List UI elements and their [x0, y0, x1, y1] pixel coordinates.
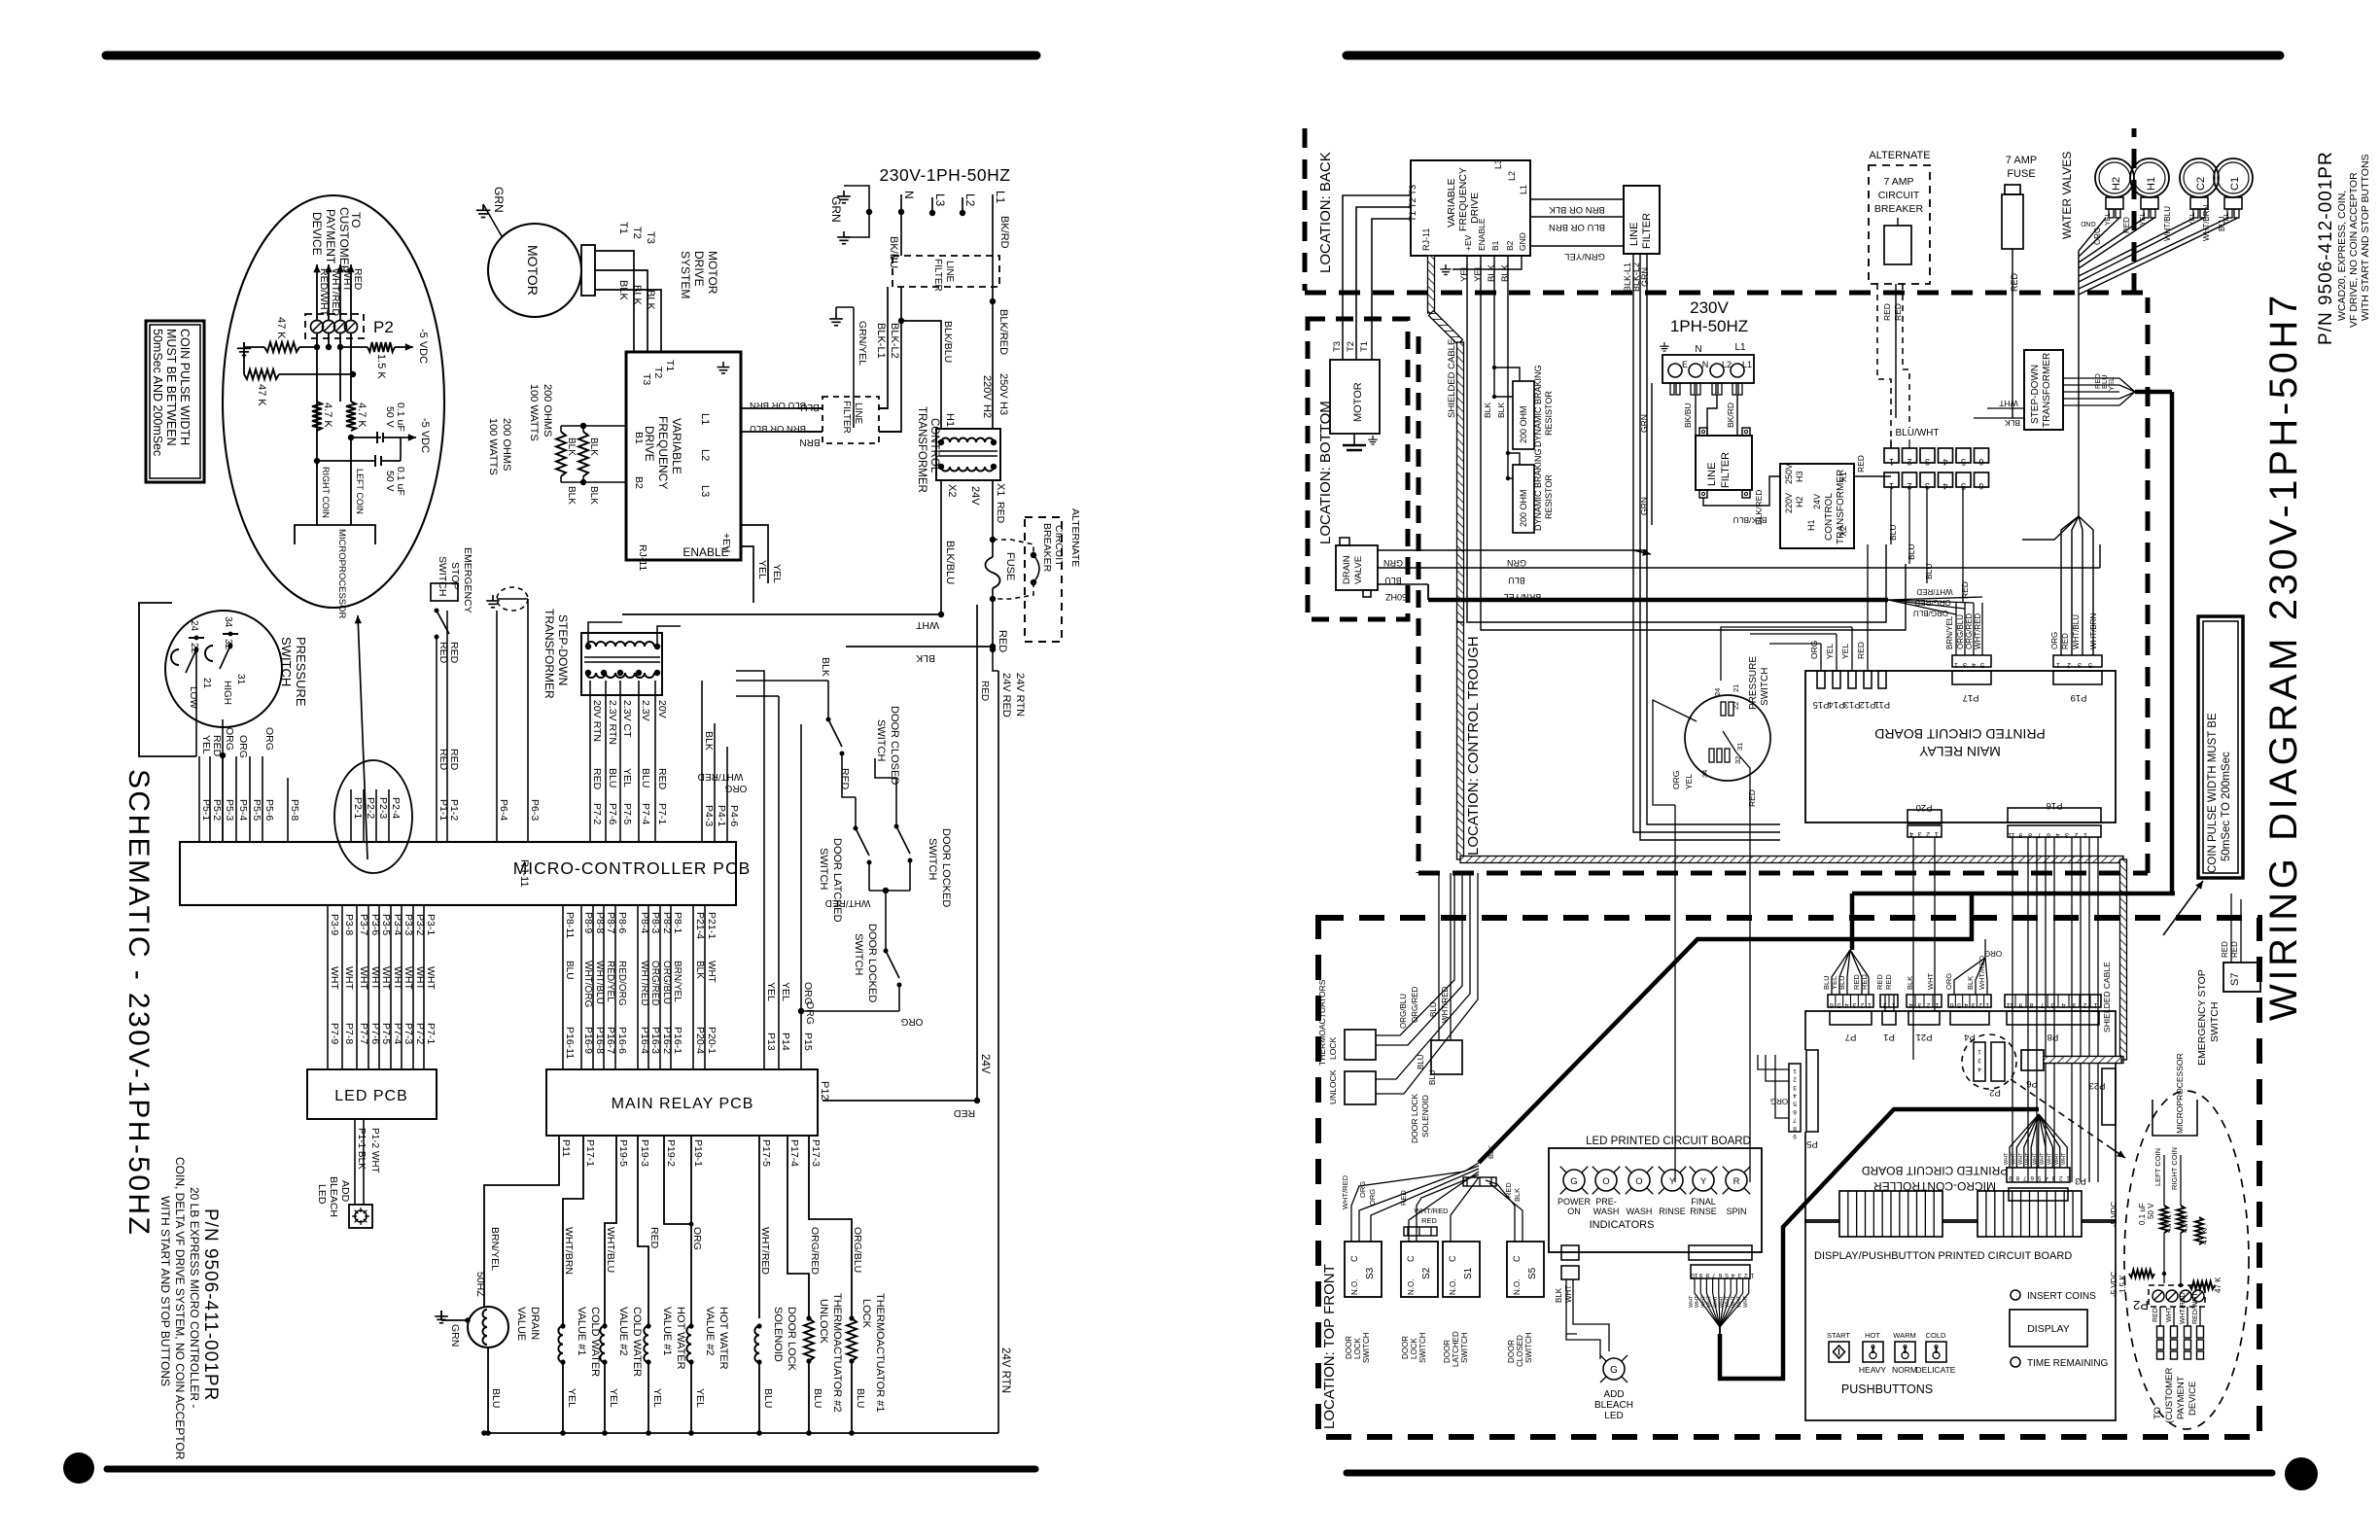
svg-text:FILTER: FILTER — [1720, 452, 1732, 488]
wires below P16 — [2012, 837, 2098, 1182]
svg-text:P5-5: P5-5 — [251, 799, 262, 821]
svg-text:P17: P17 — [1963, 692, 1979, 703]
svg-text:P7-9: P7-9 — [329, 1023, 340, 1044]
svg-text:WHT: WHT — [1719, 1295, 1725, 1308]
P2 connector (right ellipse) — [2133, 1285, 2205, 1312]
svg-text:RED: RED — [211, 735, 223, 757]
svg-text:WHT: WHT — [1700, 1295, 1706, 1308]
wires BLK WHT to add bleach LED — [1555, 1279, 1609, 1359]
svg-text:PAYMENT: PAYMENT — [324, 209, 337, 264]
svg-text:WHT/RED: WHT/RED — [639, 961, 649, 1006]
svg-text:RIGHT COIN: RIGHT COIN — [2170, 1147, 2179, 1190]
svg-text:HOT: HOT — [1865, 1331, 1880, 1340]
svg-text:BRN/YEL: BRN/YEL — [489, 1227, 501, 1271]
svg-text:P8-6: P8-6 — [616, 912, 628, 933]
svg-text:B1: B1 — [1490, 240, 1500, 251]
svg-text:L1: L1 — [1734, 342, 1746, 353]
wire L3 stub — [929, 193, 947, 216]
svg-text:RED/YEL: RED/YEL — [605, 961, 615, 1002]
svg-text:WHT: WHT — [1926, 973, 1935, 990]
svg-text:P16-1: P16-1 — [672, 1027, 683, 1054]
svg-text:WHT: WHT — [1725, 1295, 1731, 1308]
svg-text:2: 2 — [2067, 661, 2071, 670]
svg-text:BK/RD: BK/RD — [998, 216, 1010, 249]
shielded cable VFD drop — [1428, 256, 1464, 622]
svg-text:BLK: BLK — [703, 731, 715, 751]
svg-text:WATER VALVES: WATER VALVES — [2060, 152, 2074, 239]
line filter mid-left dashed — [797, 397, 901, 447]
svg-text:BLK: BLK — [1483, 402, 1492, 418]
svg-text:WHT/BLU: WHT/BLU — [2163, 206, 2172, 241]
svg-text:P7-2: P7-2 — [414, 1023, 426, 1044]
-5 VDC arrow upper — [395, 329, 429, 364]
svg-text:YEL: YEL — [756, 560, 768, 579]
svg-text:WHT: WHT — [329, 966, 340, 990]
svg-text:9: 9 — [1698, 1272, 1702, 1278]
connector P16 — [2008, 800, 2101, 838]
svg-text:WHT: WHT — [425, 966, 437, 990]
svg-text:YEL: YEL — [200, 735, 212, 754]
svg-text:SOLENOID: SOLENOID — [1420, 1095, 1430, 1137]
door latched switch — [818, 797, 872, 923]
svg-text:S1: S1 — [1463, 1267, 1474, 1279]
svg-text:WHT: WHT — [2018, 1152, 2024, 1165]
svg-text:LEFT COIN: LEFT COIN — [355, 469, 365, 514]
svg-text:8: 8 — [2028, 831, 2032, 838]
svg-text:P11: P11 — [560, 1139, 572, 1157]
svg-text:ORG/RED: ORG/RED — [809, 1227, 821, 1275]
svg-text:BLU: BLU — [1924, 563, 1934, 579]
svg-text:LINE: LINE — [1706, 463, 1718, 486]
svg-text:RED: RED — [448, 642, 460, 664]
svg-text:P8-9: P8-9 — [582, 912, 594, 933]
svg-text:3: 3 — [1972, 1001, 1976, 1008]
svg-text:LINE: LINE — [944, 261, 955, 283]
svg-text:ORG: ORG — [1770, 1097, 1788, 1105]
svg-text:ORG: ORG — [804, 1001, 816, 1025]
svg-text:100 WATTS: 100 WATTS — [487, 418, 499, 475]
svg-text:LOCK: LOCK — [1328, 1037, 1338, 1060]
svg-text:WHT: WHT — [343, 966, 355, 990]
svg-text:P16-8: P16-8 — [594, 1027, 606, 1054]
svg-text:LED PRINTED CIRCUIT BOARD: LED PRINTED CIRCUIT BOARD — [1586, 1136, 1751, 1147]
svg-text:FINAL: FINAL — [1691, 1197, 1716, 1207]
note 20 LB EXPRESS MICRO CONTROLLER — [188, 1187, 201, 1408]
svg-text:ADD: ADD — [339, 1180, 351, 1203]
wires below line filter — [1623, 254, 1780, 840]
svg-text:P1-1: P1-1 — [437, 799, 449, 821]
thick 50HZ wire — [1378, 584, 1888, 600]
wires P1 RED — [437, 642, 460, 842]
svg-text:P17-5: P17-5 — [760, 1139, 772, 1167]
wire L1 to transformer — [944, 256, 1009, 429]
svg-text:X2: X2 — [946, 484, 958, 497]
svg-text:LOCK: LOCK — [1410, 1338, 1418, 1359]
svg-text:6: 6 — [1830, 1001, 1834, 1008]
svg-text:GRN: GRN — [1640, 267, 1650, 287]
svg-text:WHT: WHT — [1743, 1295, 1749, 1308]
wire P2-2 down — [328, 333, 330, 347]
svg-text:P2-1: P2-1 — [352, 797, 364, 819]
svg-text:1: 1 — [1750, 1272, 1754, 1278]
svg-text:COLD: COLD — [1926, 1331, 1946, 1340]
svg-text:S5: S5 — [1527, 1267, 1538, 1279]
display box — [2010, 1310, 2087, 1347]
pushbutton WARM NORM — [1892, 1331, 1917, 1375]
svg-text:L1: L1 — [994, 191, 1007, 204]
svg-text:RED/ORG: RED/ORG — [616, 961, 627, 1006]
svg-text:5: 5 — [1961, 457, 1966, 467]
svg-text:P2-4: P2-4 — [390, 797, 402, 819]
svg-text:P20-1: P20-1 — [706, 1027, 717, 1054]
svg-text:WHT/BLU: WHT/BLU — [2072, 614, 2081, 649]
svg-text:YEL: YEL — [2107, 377, 2116, 391]
svg-text:P13: P13 — [765, 1032, 777, 1051]
svg-text:HOT WATER: HOT WATER — [675, 1307, 686, 1370]
svg-text:WHT: WHT — [1713, 1295, 1719, 1308]
svg-text:PRESSURE: PRESSURE — [1748, 656, 1759, 710]
svg-text:BLK: BLK — [1906, 976, 1914, 990]
svg-text:6: 6 — [1718, 1272, 1722, 1278]
label INDICATORS — [1590, 1219, 1655, 1231]
svg-text:3: 3 — [1917, 1001, 1921, 1008]
svg-text:RIGHT COIN: RIGHT COIN — [321, 467, 331, 518]
svg-text:DOOR LOCKED: DOOR LOCKED — [866, 924, 878, 1002]
svg-text:L1: L1 — [699, 413, 711, 425]
svg-text:THERMOACTUATOR #1: THERMOACTUATOR #1 — [874, 1293, 886, 1412]
svg-text:ORG/BLU: ORG/BLU — [1913, 609, 1948, 617]
svg-text:SWITCH: SWITCH — [1524, 1332, 1533, 1363]
svg-text:GRN: GRN — [492, 187, 506, 213]
svg-text:CLOSED: CLOSED — [1516, 1335, 1524, 1367]
svg-text:L3: L3 — [699, 485, 711, 497]
svg-text:WASH: WASH — [1627, 1207, 1653, 1216]
svg-text:LATCHED: LATCHED — [1452, 1331, 1460, 1367]
svg-text:4: 4 — [1964, 1001, 1968, 1008]
svg-text:SWITCH: SWITCH — [437, 556, 448, 596]
connector P8 (display board) — [2005, 995, 2101, 1042]
svg-text:P3: P3 — [2075, 1175, 2086, 1186]
door lock solenoid — [1410, 873, 1462, 1143]
svg-text:P7-4: P7-4 — [640, 803, 651, 824]
binder dot bottom-right — [2285, 1457, 2318, 1490]
svg-text:YEL: YEL — [1840, 644, 1850, 659]
svg-text:VARIABLE: VARIABLE — [1446, 178, 1457, 227]
svg-text:47 K: 47 K — [275, 317, 287, 339]
svg-text:P7-5: P7-5 — [380, 1023, 392, 1044]
svg-text:BLK/BLU: BLK/BLU — [942, 321, 954, 363]
svg-text:MICROPROCESSOR: MICROPROCESSOR — [2175, 1053, 2185, 1134]
svg-text:BRN/YEL: BRN/YEL — [1945, 615, 1954, 649]
svg-text:220V: 220V — [1784, 493, 1794, 513]
svg-text:INSERT COINS: INSERT COINS — [2027, 1291, 2096, 1302]
svg-text:WHT/ORG: WHT/ORG — [582, 961, 593, 1008]
fan above P7 — [1822, 950, 1869, 995]
svg-text:WHT: WHT — [2166, 1306, 2173, 1322]
water valve wires — [2079, 204, 2238, 516]
svg-text:VARIABLE: VARIABLE — [670, 418, 683, 474]
VFD box (right) — [1408, 159, 1530, 256]
svg-text:H2: H2 — [2111, 177, 2122, 191]
GRN/YEL ground stub — [829, 307, 868, 428]
svg-text:3: 3 — [2051, 1174, 2055, 1181]
svg-text:100 WATTS: 100 WATTS — [528, 384, 540, 441]
svg-text:24V RTN: 24V RTN — [999, 1347, 1011, 1393]
svg-text:H2: H2 — [1795, 496, 1804, 507]
label WATER VALVES — [2060, 152, 2074, 239]
svg-text:P3-6: P3-6 — [369, 914, 381, 935]
pushbutton COLD DELICATE — [1916, 1331, 1956, 1375]
connector P2 (schematic) — [305, 314, 394, 338]
svg-text:RED: RED — [2152, 1308, 2159, 1322]
svg-text:P7-6: P7-6 — [369, 1023, 381, 1044]
svg-text:O: O — [1635, 1176, 1642, 1187]
wire BLK/BLU to H1 — [901, 321, 954, 429]
svg-text:BLU: BLU — [1417, 1054, 1425, 1069]
svg-text:BLU: BLU — [1508, 576, 1525, 585]
svg-text:RED: RED — [1884, 974, 1893, 990]
svg-text:P3-5: P3-5 — [380, 914, 392, 935]
micro-controller PCB outline (right) — [1805, 1011, 2116, 1222]
svg-text:FILTER: FILTER — [932, 259, 943, 292]
drain valve wires — [1378, 544, 2100, 602]
svg-text:COIN PULSE WIDTH: COIN PULSE WIDTH — [178, 329, 192, 445]
svg-text:BLU: BLU — [564, 961, 575, 979]
svg-text:4: 4 — [1793, 1092, 1797, 1099]
connector P20 — [1907, 802, 1942, 1060]
svg-text:T2: T2 — [652, 367, 664, 378]
svg-text:31: 31 — [235, 674, 246, 685]
wire 24V — [822, 605, 991, 1119]
page bottom rule (right sheet) — [1347, 1470, 2272, 1477]
svg-text:P12: P12 — [1860, 699, 1876, 710]
svg-text:SWITCH: SWITCH — [1418, 1332, 1427, 1363]
svg-text:ORG/BLU: ORG/BLU — [1956, 614, 1965, 649]
svg-text:SWITCH: SWITCH — [818, 848, 829, 890]
svg-text:ORG: ORG — [1358, 1181, 1367, 1198]
svg-text:LINE: LINE — [1628, 223, 1640, 246]
svg-text:250V: 250V — [1784, 464, 1794, 484]
svg-text:BLEACH: BLEACH — [328, 1176, 339, 1217]
svg-text:WITH START AND STOP BUTTONS: WITH START AND STOP BUTTONS — [2360, 154, 2371, 321]
alternate circuit breaker (left) — [993, 508, 1081, 642]
svg-text:HIGH: HIGH — [222, 681, 232, 705]
svg-text:BK/BU: BK/BU — [1683, 402, 1693, 428]
svg-text:RED: RED — [1504, 1182, 1513, 1198]
svg-text:WHT: WHT — [392, 966, 403, 990]
label LOCATION: TOP FRONT — [1321, 1264, 1338, 1429]
svg-text:6: 6 — [2047, 831, 2050, 838]
wire L2 stub — [960, 193, 977, 216]
emergency stop switch — [431, 583, 458, 681]
grounds at line entry — [829, 186, 872, 244]
svg-text:P12: P12 — [819, 1081, 830, 1101]
svg-text:WHT: WHT — [2040, 1152, 2046, 1165]
svg-text:P7-7: P7-7 — [358, 1023, 369, 1044]
svg-text:-5 VDC: -5 VDC — [417, 329, 429, 364]
svg-text:X1: X1 — [1838, 472, 1848, 482]
wires P13 P14 P15 — [764, 681, 814, 1069]
svg-text:2: 2 — [1860, 1001, 1864, 1008]
svg-text:WHT: WHT — [1689, 1295, 1695, 1308]
svg-text:RED: RED — [953, 1107, 975, 1119]
connector P7 (display board) — [1828, 995, 1873, 1042]
LED PCB box — [307, 1069, 437, 1119]
svg-text:50mSec AND 200mSec: 50mSec AND 200mSec — [151, 329, 164, 456]
wire P2-4 down — [350, 333, 352, 402]
svg-text:FUSE: FUSE — [2007, 168, 2035, 180]
svg-text:WHT: WHT — [2025, 1152, 2031, 1165]
svg-text:SWITCH: SWITCH — [279, 637, 294, 686]
svg-text:WHT/RED: WHT/RED — [698, 771, 744, 782]
dashed border BACK — [1305, 128, 2148, 293]
svg-text:1: 1 — [1954, 661, 1958, 670]
svg-text:T2: T2 — [631, 227, 643, 239]
svg-text:T3: T3 — [641, 373, 652, 385]
svg-text:L1: L1 — [1519, 185, 1528, 194]
svg-text:COIN PULSE WIDTH MUST BE: COIN PULSE WIDTH MUST BE — [2207, 713, 2219, 873]
svg-text:RED: RED — [2122, 217, 2131, 233]
svg-text:WHT/RED: WHT/RED — [1977, 955, 1986, 990]
red wire X1 — [1854, 455, 1891, 476]
svg-text:WHT: WHT — [1707, 1295, 1713, 1308]
svg-text:1: 1 — [1889, 457, 1894, 467]
svg-text:P2-3: P2-3 — [377, 797, 389, 819]
svg-text:TRANSFORMER: TRANSFORMER — [916, 406, 927, 493]
svg-text:L3: L3 — [933, 193, 947, 207]
wires VFD to line filter — [1530, 199, 1624, 262]
svg-text:MOTOR: MOTOR — [1352, 382, 1364, 422]
svg-text:UNLOCK: UNLOCK — [818, 1299, 829, 1345]
svg-text:WARM: WARM — [1893, 1331, 1915, 1340]
svg-text:DOOR: DOOR — [1345, 1336, 1353, 1359]
dashed border TOP FRONT — [1318, 918, 2259, 1437]
svg-text:2: 2 — [1744, 1272, 1748, 1278]
door closed switch — [736, 657, 900, 785]
svg-text:BRN OR BLK: BRN OR BLK — [1549, 204, 1605, 215]
label MOTOR DRIVE SYSTEM — [679, 251, 719, 298]
svg-text:GRN: GRN — [1383, 558, 1403, 568]
svg-text:SHIELDED CABLE: SHIELDED CABLE — [1447, 339, 1457, 418]
oval P2 wires — [334, 760, 412, 873]
svg-text:L1: L1 — [1742, 360, 1752, 369]
svg-text:3: 3 — [1737, 1272, 1741, 1278]
svg-text:VALUE #1: VALUE #1 — [661, 1307, 673, 1356]
svg-text:NORM: NORM — [1892, 1365, 1917, 1375]
svg-text:BLK: BLK — [820, 657, 831, 677]
svg-text:MICROPROCESSOR: MICROPROCESSOR — [336, 529, 347, 619]
wires motor T1 T2 T3 — [595, 222, 661, 352]
svg-text:PRINTED CIRCUIT BOARD: PRINTED CIRCUIT BOARD — [1874, 726, 2046, 742]
svg-text:3: 3 — [1977, 1057, 1981, 1064]
svg-text:WHT/BRN: WHT/BRN — [2089, 612, 2098, 649]
svg-text:PAYMENT: PAYMENT — [2176, 1376, 2187, 1419]
svg-text:20 LB EXPRESS MICRO CONTROLLER: 20 LB EXPRESS MICRO CONTROLLER - — [188, 1187, 201, 1408]
svg-text:BK/BU: BK/BU — [888, 236, 899, 268]
label LEFT COIN — [351, 437, 365, 525]
svg-text:4: 4 — [1942, 457, 1947, 467]
svg-text:DOOR LOCK: DOOR LOCK — [786, 1307, 797, 1372]
svg-text:WHT: WHT — [2004, 1152, 2010, 1165]
part number P/N 9506-411-001PR — [200, 1208, 221, 1401]
svg-text:H3: H3 — [997, 402, 1009, 415]
svg-text:BLK: BLK — [1496, 402, 1506, 418]
svg-text:C: C — [1512, 1255, 1522, 1262]
svg-text:L3: L3 — [1493, 159, 1503, 169]
svg-text:P7-1: P7-1 — [656, 803, 668, 824]
svg-text:DOOR LATCHED: DOOR LATCHED — [831, 838, 843, 923]
svg-text:RED: RED — [437, 642, 449, 664]
svg-text:P2-2: P2-2 — [365, 797, 376, 819]
door closed switch S5 — [1507, 1242, 1544, 1367]
svg-text:RED: RED — [1875, 974, 1884, 990]
svg-text:4.7 K: 4.7 K — [356, 402, 367, 428]
svg-text:P17-3: P17-3 — [810, 1139, 822, 1167]
svg-text:50HZ: 50HZ — [1384, 592, 1407, 602]
svg-text:RED: RED — [648, 1227, 660, 1249]
label BLU/WHT — [1891, 428, 1940, 448]
wire group P8/P21 to main relay PCB — [563, 905, 717, 1069]
wire L1 — [993, 191, 1010, 256]
svg-text:DOOR: DOOR — [1401, 1336, 1410, 1359]
svg-text:P19: P19 — [2071, 692, 2087, 703]
svg-text:VALUE #1: VALUE #1 — [576, 1307, 587, 1356]
svg-text:BLK/BLU: BLK/BLU — [1733, 515, 1767, 525]
svg-text:P16-7: P16-7 — [605, 1027, 616, 1054]
svg-text:ENABLE: ENABLE — [682, 545, 728, 559]
svg-text:BLK: BLK — [631, 285, 643, 305]
emergency stop switch label — [437, 547, 473, 613]
svg-text:BLK/BLU: BLK/BLU — [944, 541, 956, 584]
svg-text:6: 6 — [1978, 457, 1983, 467]
wires filter joints — [899, 319, 904, 324]
svg-text:WHT/RED: WHT/RED — [1341, 1174, 1349, 1209]
svg-text:8: 8 — [2029, 1001, 2033, 1008]
svg-text:50 V: 50 V — [384, 406, 396, 428]
svg-text:VALUE: VALUE — [515, 1307, 527, 1341]
label 230V 1PH-50HZ (right) — [1670, 298, 1748, 335]
svg-text:GRN: GRN — [829, 196, 843, 223]
svg-text:ORG: ORG — [691, 1227, 703, 1250]
svg-text:BLU OR BRN: BLU OR BRN — [1549, 222, 1605, 232]
svg-text:BLK: BLK — [588, 437, 599, 456]
wire 24V RTN — [979, 649, 998, 1433]
svg-text:P5-6: P5-6 — [263, 799, 275, 821]
svg-text:VALUE #2: VALUE #2 — [704, 1307, 716, 1356]
add bleach LED — [316, 1119, 380, 1228]
svg-text:P13: P13 — [1844, 699, 1861, 710]
junction dot mid — [348, 435, 354, 440]
svg-text:CUSTOMER: CUSTOMER — [337, 207, 351, 274]
microprocessor bracket — [295, 525, 375, 619]
hatched shield inside trough — [1457, 622, 2127, 1064]
wire P2-1 down — [316, 333, 318, 467]
svg-text:H3: H3 — [1795, 471, 1804, 482]
svg-text:ORG: ORG — [724, 783, 747, 793]
svg-text:YEL: YEL — [1473, 264, 1484, 282]
svg-text:VALUE #2: VALUE #2 — [617, 1307, 629, 1356]
door lock switch S3 — [1345, 1242, 1382, 1363]
svg-text:P23: P23 — [2089, 1080, 2106, 1091]
svg-text:BLU: BLU — [800, 402, 819, 412]
svg-text:P17-1: P17-1 — [584, 1139, 596, 1167]
svg-text:P3-8: P3-8 — [343, 914, 355, 935]
svg-text:ORG/BLU: ORG/BLU — [661, 961, 672, 1004]
svg-text:BREAKER: BREAKER — [1041, 523, 1053, 573]
svg-text:P1-2: P1-2 — [448, 799, 460, 821]
title WIRING DIAGRAM 230V-1PH-50H7 — [2262, 292, 2305, 1021]
svg-text:P8-11: P8-11 — [564, 912, 576, 938]
